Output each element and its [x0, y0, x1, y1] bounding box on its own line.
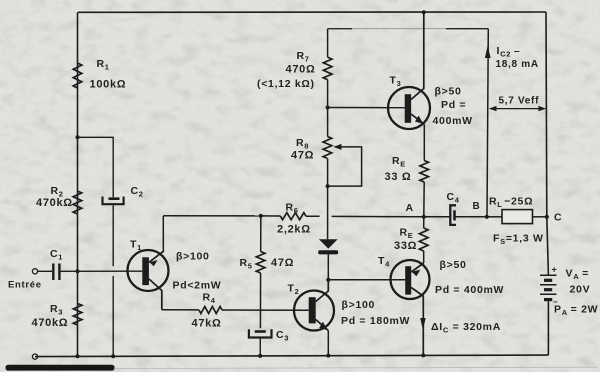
- svg-text:47Ω: 47Ω: [271, 257, 294, 269]
- svg-text:47Ω: 47Ω: [291, 150, 314, 162]
- svg-text:β>100: β>100: [176, 251, 210, 263]
- svg-text:100kΩ: 100kΩ: [90, 79, 127, 91]
- svg-text:470Ω: 470Ω: [286, 64, 316, 76]
- svg-text:PA = 2W: PA = 2W: [554, 304, 598, 317]
- svg-text:(<1,12 kΩ): (<1,12 kΩ): [257, 78, 315, 90]
- svg-text:β>50: β>50: [435, 86, 462, 98]
- svg-text:47kΩ: 47kΩ: [192, 318, 222, 330]
- svg-text:Pd = 180mW: Pd = 180mW: [341, 315, 410, 327]
- svg-text:2,2kΩ: 2,2kΩ: [277, 224, 311, 236]
- svg-text:RL −25Ω: RL −25Ω: [489, 196, 533, 209]
- svg-text:18,8 mA: 18,8 mA: [496, 59, 539, 70]
- svg-text:Pd<2mW: Pd<2mW: [173, 280, 222, 292]
- svg-text:33Ω: 33Ω: [394, 240, 417, 252]
- svg-text:β>100: β>100: [342, 299, 376, 311]
- svg-text:Entrée: Entrée: [8, 280, 42, 291]
- svg-text:β>50: β>50: [440, 259, 467, 271]
- svg-text:A: A: [406, 202, 414, 214]
- svg-text:Pd =: Pd =: [441, 99, 466, 111]
- svg-text:470kΩ: 470kΩ: [36, 197, 73, 209]
- svg-text:470kΩ: 470kΩ: [32, 317, 69, 329]
- svg-text:400mW: 400mW: [433, 115, 473, 127]
- svg-text:B: B: [473, 201, 481, 212]
- svg-text:+: +: [552, 265, 558, 275]
- svg-text:C: C: [554, 212, 562, 224]
- svg-text:5,7 Veff: 5,7 Veff: [499, 96, 540, 107]
- svg-text:ΔIC = 320mA: ΔIC = 320mA: [431, 321, 501, 334]
- svg-text:20V: 20V: [570, 284, 591, 296]
- svg-text:Pd = 400mW: Pd = 400mW: [435, 284, 504, 296]
- svg-text:33 Ω: 33 Ω: [385, 171, 412, 183]
